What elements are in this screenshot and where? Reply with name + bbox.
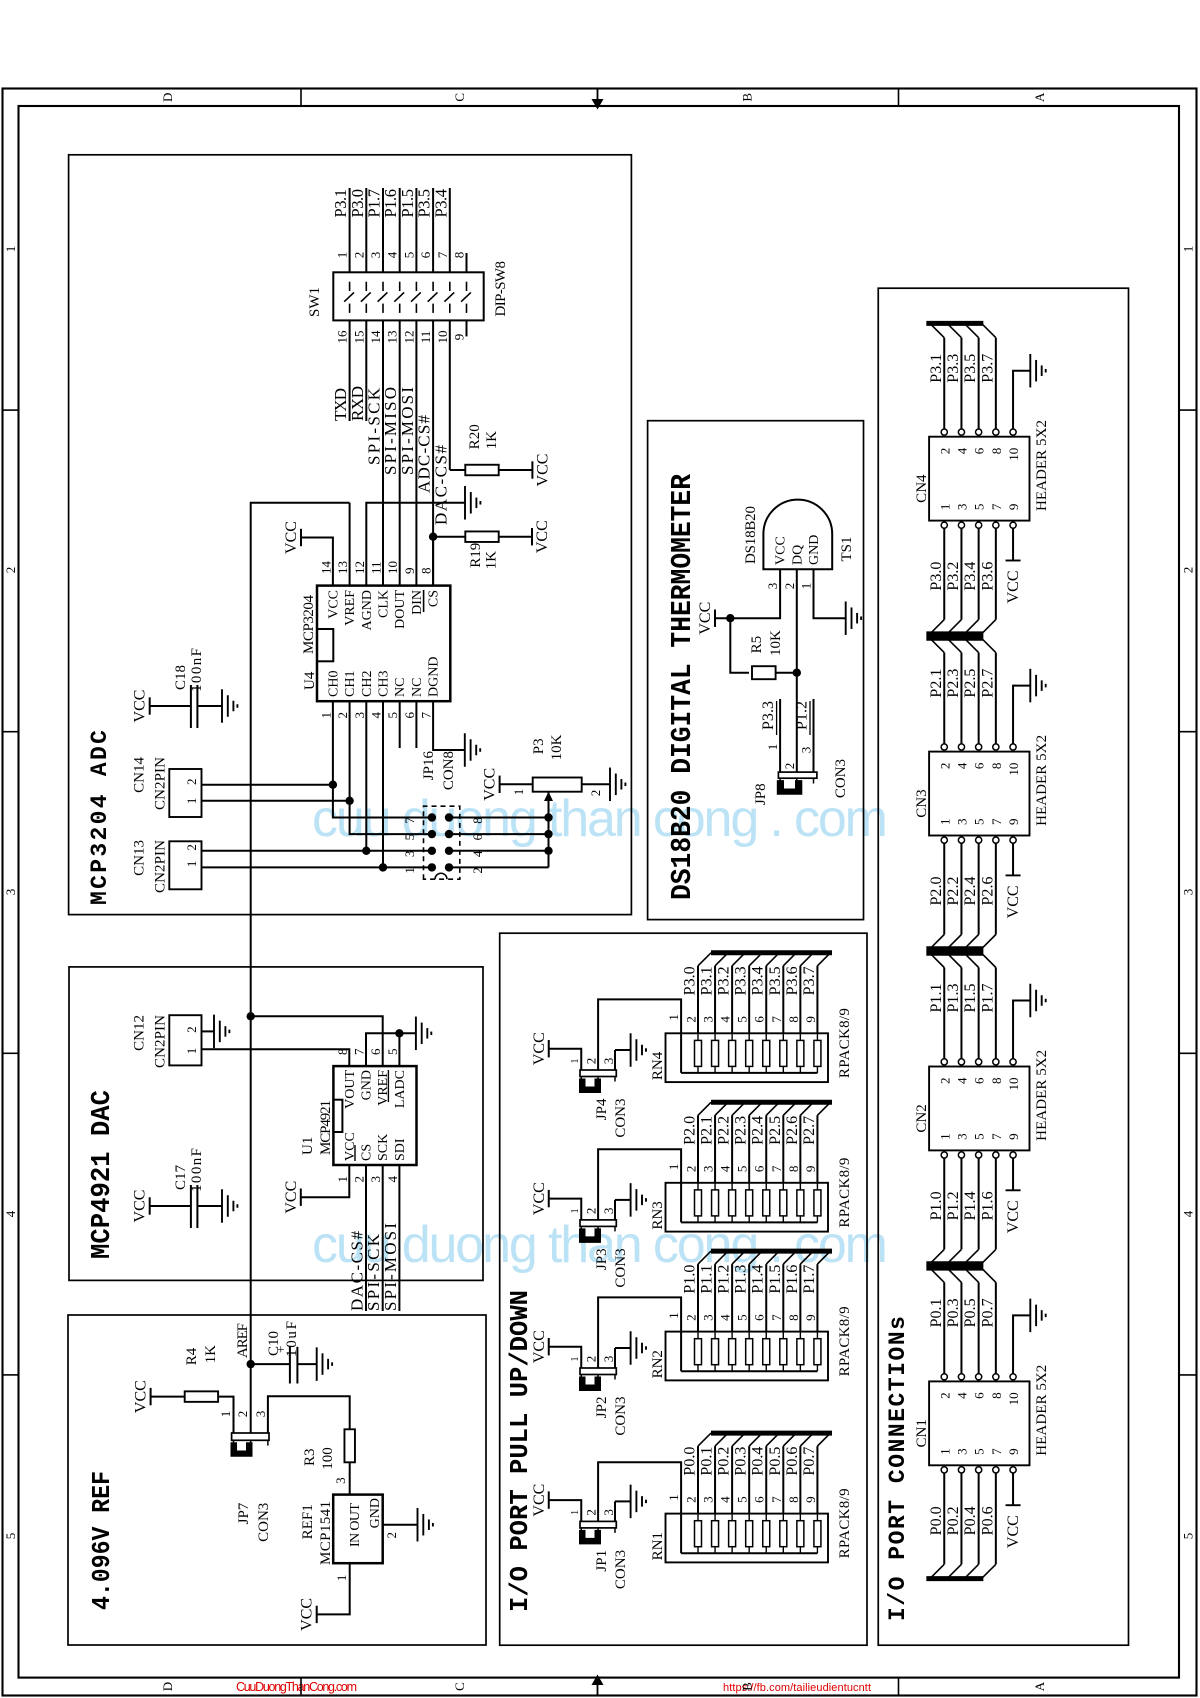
- svg-text:4: 4: [385, 251, 400, 258]
- CN4 wire P3.6: [995, 528, 997, 619]
- wire R4 to JP7 pin1: [218, 1397, 233, 1433]
- svg-text:SDI: SDI: [393, 1138, 408, 1161]
- svg-text:AREF: AREF: [235, 1323, 251, 1358]
- svg-text:10: 10: [385, 561, 400, 574]
- RN3 pin 6 wire P2.4: [765, 1115, 767, 1183]
- frame center arrow left: [597, 1683, 599, 1696]
- jumper block JP16 CON8 outline: [424, 806, 460, 879]
- svg-text:R5: R5: [749, 636, 765, 654]
- CN1 wire P0.2: [960, 1473, 962, 1564]
- svg-text:2: 2: [782, 583, 797, 590]
- CN1 left pin 7: [993, 1467, 999, 1473]
- junction wiper rail: [544, 813, 552, 821]
- connector CN2 body: [929, 1067, 1029, 1151]
- svg-text:3: 3: [701, 1166, 716, 1173]
- junction wiper rail: [544, 847, 552, 855]
- svg-text:1: 1: [937, 819, 952, 826]
- wire U1 pin8 VOUT to CN12 pin1: [202, 1049, 350, 1066]
- svg-text:3: 3: [333, 1477, 348, 1484]
- svg-text:10: 10: [435, 331, 450, 344]
- jumper JP2 header: [580, 1368, 616, 1375]
- wire ADC-CS#: [432, 320, 434, 585]
- power VCC P3: [499, 776, 501, 793]
- JP2 pin3 wire GND: [614, 1348, 616, 1368]
- svg-text:P0.0: P0.0: [928, 1506, 945, 1535]
- resistor R20: [465, 465, 498, 476]
- svg-text:4: 4: [369, 712, 384, 719]
- svg-text:B: B: [740, 93, 755, 102]
- CN3 wire P2.7: [995, 653, 997, 744]
- connector CN1 body: [929, 1381, 1029, 1465]
- CN1 wire P0.3: [960, 1282, 962, 1373]
- wire TS1 pin3 VCC: [715, 569, 780, 618]
- IC U1 MCP4921 body: [333, 1066, 416, 1165]
- svg-text:4: 4: [954, 1392, 969, 1399]
- CN1 left pin 9: [1010, 1467, 1016, 1473]
- SW1 pin 1 wire: [349, 188, 351, 272]
- svg-text:1: 1: [218, 1411, 233, 1418]
- svg-text:3: 3: [954, 504, 969, 511]
- CN3 wire P2.1: [943, 653, 945, 744]
- svg-text:8: 8: [786, 1166, 801, 1173]
- svg-text:1: 1: [666, 1312, 681, 1319]
- RN3 resistor element 5: [746, 1190, 753, 1216]
- wire REF1 pin2 GND: [383, 1524, 418, 1526]
- capacitor C17: [190, 1185, 192, 1228]
- wire ADC-CS# to R19: [433, 536, 465, 538]
- svg-text:6: 6: [752, 1314, 767, 1321]
- svg-text:1: 1: [1180, 246, 1195, 253]
- svg-text:P2.4: P2.4: [962, 877, 979, 906]
- svg-text:9: 9: [1006, 819, 1021, 826]
- jumper JP7 cap: [231, 1442, 253, 1457]
- svg-text:REF1: REF1: [300, 1504, 316, 1539]
- CN4 wire P3.1: [943, 338, 945, 429]
- svg-text:MCP4921 DAC: MCP4921 DAC: [88, 1090, 118, 1259]
- wire pot wiper rail: [548, 792, 550, 868]
- CN2 wire P1.4: [978, 1158, 980, 1249]
- bus bar right CN3: [926, 636, 983, 641]
- svg-text:1: 1: [184, 798, 199, 805]
- svg-text:CH0: CH0: [326, 671, 341, 697]
- CN2 left pin 5: [976, 1152, 982, 1158]
- ground DGND: [464, 733, 466, 767]
- CN1 left pin 3: [958, 1467, 964, 1473]
- bus bar RN1: [711, 1431, 832, 1436]
- svg-text:RPACK8/9: RPACK8/9: [837, 1158, 853, 1228]
- svg-text:JP8: JP8: [753, 783, 769, 805]
- RN2 pin 2 wire P1.0: [697, 1264, 699, 1332]
- svg-text:10: 10: [1006, 1078, 1021, 1091]
- svg-text:5: 5: [735, 1496, 750, 1503]
- svg-text:P3.0: P3.0: [928, 562, 945, 591]
- JP4 pin3 wire GND: [614, 1050, 616, 1070]
- ground C18: [221, 689, 223, 723]
- CN1 right pin 6: [976, 1374, 982, 1380]
- wire U4 pin14 VCC: [301, 538, 333, 586]
- wire R20 to VCC: [499, 469, 533, 471]
- svg-text:1: 1: [402, 867, 417, 874]
- svg-text:5: 5: [972, 504, 987, 511]
- svg-text:JP7: JP7: [236, 1502, 252, 1524]
- svg-text:P2.6: P2.6: [784, 1116, 801, 1145]
- svg-text:P2.6: P2.6: [979, 877, 996, 906]
- svg-text:P0.2: P0.2: [716, 1447, 733, 1476]
- svg-text:CLK: CLK: [377, 590, 392, 618]
- RN2 pin 4 wire P1.2: [731, 1264, 733, 1332]
- CN2 wire P1.3: [960, 968, 962, 1059]
- svg-text:4: 4: [718, 1016, 733, 1023]
- RN4 resistor element 4: [729, 1040, 736, 1066]
- svg-text:P0.5: P0.5: [962, 1298, 979, 1327]
- svg-text:VCC: VCC: [531, 1182, 548, 1215]
- RN1 pin 7 wire P0.5: [782, 1446, 784, 1514]
- CN4 wire P3.7: [995, 338, 997, 429]
- wire AREF: [251, 503, 350, 1364]
- resistor network RN2 body: [666, 1332, 829, 1381]
- svg-text:P2.7: P2.7: [801, 1116, 818, 1145]
- svg-text:P2.7: P2.7: [979, 669, 996, 698]
- svg-text:2: 2: [937, 448, 952, 455]
- CN2 wire P1.6: [995, 1158, 997, 1249]
- CN1 pin10 wire GND: [1013, 1315, 1030, 1373]
- svg-text:5: 5: [385, 712, 400, 719]
- svg-text:14: 14: [368, 330, 383, 344]
- svg-text:P1.7: P1.7: [801, 1265, 818, 1294]
- svg-text:1: 1: [570, 1208, 581, 1213]
- svg-text:SPI-MOSI: SPI-MOSI: [381, 1223, 400, 1311]
- jumper JP2 cap: [579, 1377, 601, 1392]
- jumper JP4 header: [580, 1070, 616, 1077]
- IC REF1 MCP1541 body: [333, 1495, 383, 1564]
- RN3 internal rail: [681, 1221, 817, 1223]
- svg-text:P1.4: P1.4: [962, 1191, 979, 1220]
- svg-text:B: B: [740, 1682, 755, 1691]
- ground U1: [415, 1017, 417, 1051]
- svg-text:C: C: [452, 93, 467, 102]
- svg-text:10uF: 10uF: [284, 1321, 300, 1357]
- resistor R19: [465, 531, 498, 542]
- svg-text:7: 7: [989, 818, 1004, 825]
- resistor R4: [150, 1388, 152, 1405]
- svg-text:6: 6: [752, 1016, 767, 1023]
- IC U4 MCP3204 body: [317, 586, 450, 702]
- RN3 resistor element 6: [763, 1190, 770, 1216]
- svg-text:CN3: CN3: [914, 789, 930, 817]
- SW1 pin 16 wire TXD: [349, 320, 351, 421]
- svg-text:P0.2: P0.2: [945, 1506, 962, 1535]
- svg-text:P1.2: P1.2: [794, 701, 811, 730]
- svg-text:3: 3: [368, 252, 383, 259]
- svg-text:15: 15: [351, 331, 366, 344]
- RN4 pin 9 wire P3.7: [816, 966, 818, 1034]
- CN4 left pin 1: [941, 522, 947, 528]
- CN1 right pin 8: [993, 1374, 999, 1380]
- svg-text:VCC: VCC: [132, 690, 149, 723]
- RN1 internal rail: [681, 1552, 817, 1554]
- svg-text:5: 5: [735, 1166, 750, 1173]
- sensor TS1 DS18B20 body: [763, 500, 832, 570]
- svg-text:VCC: VCC: [133, 1380, 150, 1413]
- svg-text:9: 9: [803, 1016, 818, 1023]
- RN3 resistor element 2: [695, 1190, 702, 1216]
- capacitor C18: [190, 685, 192, 728]
- svg-text:2: 2: [937, 1392, 952, 1399]
- ground JP1: [615, 1500, 631, 1502]
- RN2 resistor element 7: [780, 1339, 787, 1365]
- svg-text:2: 2: [584, 1208, 599, 1215]
- CN4 wire P3.2: [960, 528, 962, 619]
- RN2 pin 6 wire P1.4: [765, 1264, 767, 1332]
- CN4 left pin 7: [993, 522, 999, 528]
- CN1 right pin 2: [941, 1374, 947, 1380]
- svg-text:13: 13: [335, 561, 350, 574]
- svg-text:AGND: AGND: [360, 590, 375, 630]
- wire U1 pin5 LADC: [398, 1033, 400, 1066]
- block box MCP4921 DAC: [69, 967, 483, 1281]
- svg-text:8: 8: [786, 1496, 801, 1503]
- wire U1 pin4 SPI-MOSI: [398, 1165, 400, 1311]
- CN3 right pin 6: [976, 744, 982, 750]
- JP16 bottom pin 2: [445, 863, 453, 871]
- svg-text:9: 9: [452, 334, 467, 341]
- svg-text:SCK: SCK: [376, 1134, 391, 1161]
- svg-text:P2.4: P2.4: [750, 1116, 767, 1145]
- CN1 wire P0.0: [943, 1473, 945, 1564]
- CN3 pin10 wire GND: [1013, 686, 1030, 744]
- RN1 pin 8 wire P0.6: [799, 1446, 801, 1514]
- svg-text:NC: NC: [393, 678, 408, 697]
- bus bar left CN2: [926, 1261, 983, 1266]
- svg-text:VCC: VCC: [534, 454, 551, 487]
- RN4 pin 7 wire P3.5: [782, 966, 784, 1034]
- ground REF1: [417, 1508, 419, 1542]
- svg-text:P2.0: P2.0: [682, 1116, 699, 1145]
- junction wiper rail: [544, 830, 552, 838]
- svg-text:P1.1: P1.1: [928, 984, 945, 1013]
- svg-text:P0.1: P0.1: [928, 1298, 945, 1327]
- svg-text:P0.3: P0.3: [945, 1298, 962, 1327]
- svg-text:CH1: CH1: [343, 671, 358, 697]
- power VCC CN1: [1006, 1504, 1021, 1506]
- svg-text:CON3: CON3: [613, 1397, 629, 1436]
- svg-text:CON3: CON3: [613, 1248, 629, 1287]
- CN1 wire P0.6: [995, 1473, 997, 1564]
- svg-text:8: 8: [786, 1314, 801, 1321]
- svg-text:10K: 10K: [768, 630, 784, 656]
- svg-text:VOUT: VOUT: [343, 1070, 358, 1109]
- power VCC TS1: [714, 610, 716, 627]
- svg-text:13: 13: [385, 331, 400, 344]
- svg-text:R3: R3: [302, 1448, 318, 1466]
- RN4 pin 5 wire P3.3: [748, 966, 750, 1034]
- JP3 pin3 wire GND: [614, 1200, 616, 1220]
- switch SW1 element 5: [415, 304, 417, 313]
- svg-text:VCC: VCC: [1005, 571, 1022, 604]
- RN1 pin 4 wire P0.2: [731, 1446, 733, 1514]
- RN3 pin 1 wire: [598, 1149, 681, 1222]
- svg-text:100nF: 100nF: [189, 648, 205, 692]
- wire P3 pin2 GND: [582, 783, 610, 785]
- U1 CS overline: [354, 1145, 356, 1161]
- RN3 resistor element 8: [797, 1190, 804, 1216]
- svg-text:P1.3: P1.3: [733, 1265, 750, 1294]
- svg-text:2: 2: [684, 1016, 699, 1023]
- svg-text:P2.1: P2.1: [699, 1116, 716, 1145]
- CN4 wire P3.0: [943, 528, 945, 619]
- svg-text:DAC-CS#: DAC-CS#: [431, 445, 450, 526]
- svg-text:CN4: CN4: [914, 474, 930, 503]
- RN2 resistor element 5: [746, 1339, 753, 1365]
- IC U1 notch: [333, 1100, 342, 1132]
- wire JP16 to pot wiper: [449, 850, 549, 852]
- svg-text:JP4: JP4: [594, 1098, 610, 1120]
- RN2 resistor element 4: [729, 1339, 736, 1365]
- svg-text:5: 5: [3, 1533, 18, 1540]
- svg-text:4: 4: [954, 1077, 969, 1084]
- wire C17 to ground: [197, 1205, 222, 1207]
- SW1 pin 8 wire: [466, 253, 468, 272]
- svg-text:GND: GND: [807, 535, 822, 565]
- power VCC U4: [300, 529, 302, 546]
- switch SW1 element 3: [382, 304, 384, 313]
- bus bar right CN4: [926, 321, 983, 326]
- svg-text:2: 2: [184, 844, 199, 851]
- svg-text:3: 3: [701, 1016, 716, 1023]
- RN4 pin 8 wire P3.6: [799, 966, 801, 1034]
- svg-text:P0.6: P0.6: [784, 1447, 801, 1476]
- wire U1 pin3 SPI-SCK: [382, 1165, 384, 1311]
- svg-text:P3.6: P3.6: [784, 966, 801, 995]
- svg-text:3: 3: [253, 1411, 268, 1418]
- wire R19 to VCC: [499, 536, 532, 538]
- U4 pin5 stub: [399, 701, 401, 748]
- svg-text:P0.0: P0.0: [682, 1447, 699, 1476]
- svg-text:3: 3: [601, 1509, 616, 1516]
- svg-text:1: 1: [184, 1048, 199, 1055]
- svg-text:VREF: VREF: [343, 590, 358, 626]
- JP16 bottom pin 4: [445, 847, 453, 855]
- svg-text:3: 3: [352, 712, 367, 719]
- bus bar RN3: [711, 1100, 832, 1105]
- CN1 pin9 wire VCC: [1012, 1473, 1014, 1505]
- junction ADC-CS# R19: [429, 532, 437, 540]
- CN1 left pin 5: [976, 1467, 982, 1473]
- IC U4 notch: [317, 629, 333, 661]
- svg-text:CN14: CN14: [132, 757, 148, 793]
- svg-text:IN OUT: IN OUT: [348, 1503, 363, 1547]
- svg-text:100nF: 100nF: [189, 1148, 205, 1192]
- svg-text:VCC: VCC: [299, 1598, 316, 1631]
- svg-text:P3.7: P3.7: [801, 966, 818, 995]
- svg-text:7: 7: [989, 503, 1004, 510]
- svg-text:7: 7: [402, 817, 417, 824]
- CN2 right pin 2: [941, 1059, 947, 1065]
- svg-text:3: 3: [1180, 889, 1195, 896]
- svg-text:JP16: JP16: [421, 751, 437, 781]
- svg-text:CN13: CN13: [132, 840, 148, 876]
- svg-text:P0.4: P0.4: [962, 1506, 979, 1535]
- svg-text:5: 5: [1180, 1533, 1195, 1540]
- svg-text:P3.2: P3.2: [945, 562, 962, 591]
- JP16 top pin 5: [428, 830, 436, 838]
- svg-text:P0.5: P0.5: [767, 1447, 784, 1476]
- svg-text:P3.6: P3.6: [979, 562, 996, 591]
- RN4 resistor element 2: [695, 1040, 702, 1066]
- bus bar RN4: [711, 950, 832, 955]
- power VCC R20: [531, 461, 533, 478]
- svg-text:CON3: CON3: [613, 1550, 629, 1589]
- svg-text:4: 4: [718, 1165, 733, 1172]
- CN3 right pin 4: [958, 744, 964, 750]
- svg-text:8: 8: [989, 763, 1004, 770]
- RN4 pin 3 wire P3.1: [714, 966, 716, 1034]
- RN1 pin 5 wire P0.3: [748, 1446, 750, 1514]
- wire JP16 to pot wiper: [449, 817, 549, 819]
- JP1 pin3 wire GND: [614, 1501, 616, 1521]
- svg-text:5: 5: [385, 1049, 400, 1056]
- svg-text:8: 8: [989, 448, 1004, 455]
- RN1 resistor element 5: [746, 1521, 753, 1547]
- svg-text:1K: 1K: [484, 431, 500, 450]
- svg-text:4: 4: [718, 1496, 733, 1503]
- svg-text:6: 6: [972, 762, 987, 769]
- svg-text:CON3: CON3: [613, 1099, 629, 1138]
- svg-text:P0.7: P0.7: [979, 1298, 996, 1327]
- svg-text:1: 1: [184, 861, 199, 868]
- svg-text:1: 1: [511, 789, 526, 796]
- jumper JP3 header: [580, 1220, 616, 1227]
- svg-text:1: 1: [335, 252, 350, 259]
- CN2 right pin 6: [976, 1059, 982, 1065]
- svg-text:CN2: CN2: [914, 1104, 930, 1132]
- wire U4 pin13 VREF: [349, 503, 351, 586]
- CN4 left pin 5: [976, 522, 982, 528]
- svg-text:CS: CS: [427, 590, 442, 607]
- svg-text:U4: U4: [302, 671, 318, 690]
- svg-text:7: 7: [419, 712, 434, 719]
- jumper JP8 cap: [777, 780, 803, 795]
- resistor R5: [752, 666, 776, 679]
- connector CN4 body: [929, 437, 1029, 521]
- block box MCP3204 ADC: [69, 155, 632, 915]
- power VCC CN4: [1006, 560, 1021, 562]
- wire R3 to REF1 OUT: [349, 1462, 351, 1494]
- U4 CS overline: [423, 590, 425, 612]
- svg-text:VCC: VCC: [283, 1181, 300, 1214]
- svg-text:7: 7: [769, 1016, 784, 1023]
- junction AREF C10: [247, 1360, 255, 1368]
- power VCC C17: [149, 1197, 151, 1214]
- svg-text:10: 10: [1006, 448, 1021, 461]
- wire U1 pin2 DAC-CS#: [365, 1165, 367, 1311]
- svg-text:P1.5: P1.5: [767, 1265, 784, 1294]
- svg-text:1K: 1K: [484, 551, 500, 570]
- CN3 right pin 10: [1010, 744, 1016, 750]
- ground CN3: [1029, 669, 1031, 703]
- block box I/O PORT PULL UP/DOWN: [500, 933, 867, 1645]
- RN1 resistor element 4: [729, 1521, 736, 1547]
- SW1 pin 7 wire: [449, 188, 451, 272]
- CN3 wire P2.6: [995, 843, 997, 934]
- connector CN13: [169, 841, 201, 889]
- wire SPI-MISO: [399, 320, 401, 585]
- CN1 wire P0.7: [995, 1282, 997, 1373]
- svg-text:MCP3204 ADC: MCP3204 ADC: [87, 730, 113, 905]
- svg-text:TS1: TS1: [839, 536, 855, 561]
- svg-text:1K: 1K: [203, 1345, 219, 1364]
- svg-text:2: 2: [684, 1314, 699, 1321]
